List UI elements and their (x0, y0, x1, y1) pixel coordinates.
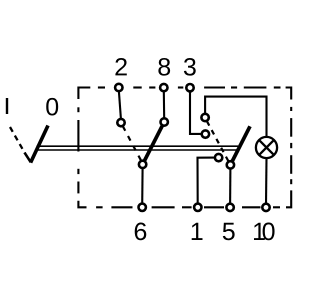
wire: lamp contact to lamp (205, 97, 266, 138)
wire: contact to terminal 1 (198, 158, 216, 205)
lever arm (31, 126, 48, 163)
contact under terminal 2 (117, 119, 124, 126)
terminal 5 (226, 204, 233, 211)
lever dashed joint (25, 153, 31, 163)
enclosure dash-dot border (78, 88, 291, 208)
linkage line lower (37, 149, 239, 151)
wire: terminal 2 stem (119, 90, 121, 120)
lamp feed contact (201, 114, 208, 121)
right pivot contact (227, 161, 234, 168)
label 8 (158, 58, 170, 76)
terminal 3 contact (202, 130, 209, 137)
label 2 (115, 58, 126, 75)
label 0 (46, 98, 58, 116)
terminal 8 (160, 84, 167, 91)
terminal 3 (186, 84, 193, 91)
terminal 10 (262, 204, 269, 211)
contact under terminal 8 (161, 118, 168, 125)
label 1 (192, 223, 203, 240)
linkage line upper (37, 145, 239, 147)
right switch dashed alternate (207, 121, 228, 161)
label 5 (223, 223, 235, 240)
label 6 (135, 223, 147, 241)
position mark I (6, 98, 8, 114)
terminal 1 (194, 204, 201, 211)
indicator lamp (256, 137, 277, 158)
label 10 (254, 223, 275, 241)
wire: left pivot to terminal 6 (141, 167, 144, 205)
wire: terminal 8 stem (163, 90, 165, 120)
left switch dashed alternate (123, 126, 141, 160)
terminal 6 (139, 204, 146, 211)
wire: right pivot to terminal 5 (229, 167, 231, 205)
left pivot contact (139, 161, 146, 168)
right switch arm (230, 126, 250, 165)
lever dashed (position 0 alternate) (10, 127, 25, 153)
label 3 (184, 58, 196, 76)
terminal 1 contact (215, 154, 222, 161)
wire: terminal 3 to contact (190, 90, 202, 134)
wire: lamp to terminal 10 (265, 158, 268, 206)
left switch arm (143, 122, 165, 164)
terminal 2 (115, 84, 122, 91)
